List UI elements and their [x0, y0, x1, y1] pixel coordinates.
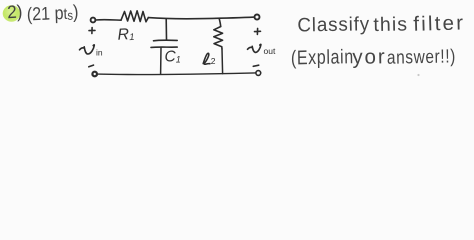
output terminal bottom-right (open circle)	[256, 71, 261, 76]
input terminal bottom-left (open circle)	[92, 72, 97, 77]
plus sign at input	[89, 28, 95, 34]
bottom rail wire	[97, 73, 256, 75]
wire: top rail to resistor R2	[219, 19, 221, 27]
stray pencil dot	[417, 74, 419, 76]
input terminal top-left (open circle)	[91, 18, 96, 23]
wire: R1 to output terminal (top rail)	[148, 17, 254, 19]
label R2 script ell	[203, 53, 210, 64]
green highlighter circle around problem number	[3, 5, 21, 21]
wire: C1 to bottom rail	[160, 48, 162, 75]
resistor R2 (vertical zigzag)	[214, 27, 223, 50]
wire: R2 to bottom rail	[221, 49, 224, 74]
svg-text:yor: yor	[352, 45, 387, 69]
node vout script v	[248, 44, 261, 52]
plus sign at output	[255, 28, 261, 34]
svg-text:Classify: Classify	[297, 14, 370, 37]
minus sign at output	[253, 65, 258, 66]
svg-text:(Explain: (Explain	[291, 45, 354, 68]
svg-text:out: out	[264, 46, 276, 56]
node vin script v	[80, 45, 95, 54]
svg-text:2: 2	[211, 56, 216, 66]
svg-text:in: in	[96, 48, 103, 58]
capacitor C1 top plate	[154, 39, 178, 42]
svg-text:filter: filter	[413, 11, 466, 35]
paper background	[0, 0, 474, 84]
wire: input + terminal to R1	[96, 19, 121, 22]
svg-text:this: this	[373, 13, 408, 36]
capacitor C1 bottom plate	[151, 46, 177, 48]
resistor R1 (zigzag)	[121, 11, 148, 22]
svg-text:answer!!): answer!!)	[387, 45, 456, 68]
svg-text:2): 2)	[7, 1, 23, 22]
minus sign at input	[89, 65, 94, 67]
wire: top rail to capacitor C1	[165, 19, 167, 40]
output terminal top-right (open circle)	[255, 15, 260, 20]
